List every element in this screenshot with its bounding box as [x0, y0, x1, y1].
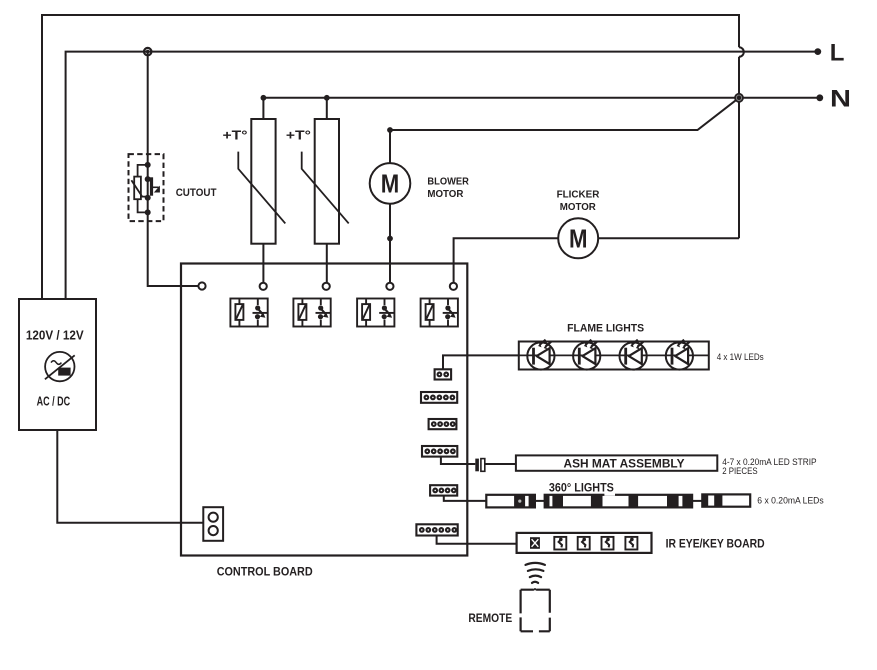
remote signal arc 1	[526, 563, 545, 565]
thermistor +T 1 characteristic slash	[238, 152, 285, 224]
svg-text:ASH MAT ASSEMBLY: ASH MAT ASSEMBLY	[564, 459, 685, 471]
node thermistor1 top	[261, 95, 267, 101]
remote dashed body	[521, 590, 550, 632]
svg-text:+T°: +T°	[286, 129, 311, 143]
wire flame lights from 2-pin connector	[443, 355, 519, 369]
wire IR board from 6-pin connector	[437, 536, 517, 544]
svg-text:M: M	[381, 169, 400, 199]
blower motor M circle	[370, 163, 411, 204]
board terminal circles	[198, 282, 457, 290]
wire N: top loop from AC/DC up, across top, down right side with hop over L wire	[42, 15, 739, 299]
svg-text:L: L	[830, 39, 845, 66]
flame lights chain wire	[519, 354, 709, 356]
wire 360 lights from 4-pin connector	[444, 496, 487, 501]
connector J1 2-pin (flame)	[435, 369, 452, 379]
remote top caret	[533, 589, 536, 591]
wire L: from AC/DC up, across to L terminal	[66, 52, 818, 299]
relay K4	[421, 299, 458, 327]
svg-text:2 PIECES: 2 PIECES	[722, 466, 757, 476]
360 strip segment 2	[545, 493, 692, 507]
IR eye/key board box	[517, 533, 652, 553]
svg-text:6 x 0.20mA LEDs: 6 x 0.20mA LEDs	[757, 496, 824, 506]
ash mat plug bars	[475, 459, 485, 472]
connector J2 5-pin	[421, 392, 457, 403]
key button 1	[554, 537, 566, 550]
wire strip link 2	[692, 500, 702, 502]
svg-text:+T°: +T°	[223, 129, 248, 143]
svg-text:MOTOR: MOTOR	[427, 188, 463, 200]
LED D4 flame	[666, 340, 693, 370]
AC/DC converter 120V/12V box	[19, 299, 96, 430]
relay K3	[357, 299, 394, 327]
LED D1 flame	[527, 340, 554, 370]
AC/DC converter icon	[45, 352, 75, 381]
LED D2 flame	[573, 340, 600, 370]
connector J4 5-pin (ash mat)	[422, 446, 457, 457]
wire thermistor2 bottom to board terminal	[326, 244, 328, 283]
svg-text:120V / 12V: 120V / 12V	[26, 328, 84, 342]
wire N diagonal branch to blower motor line	[390, 98, 739, 163]
connector J6 6-pin (IR board)	[416, 524, 457, 535]
svg-text:MOTOR: MOTOR	[560, 201, 596, 213]
wire ash mat from 5-pin connector	[441, 457, 516, 464]
node thermistor2 top	[324, 95, 330, 101]
wire N branch: junction to thermistor tops	[263, 98, 739, 119]
terminal dot N	[816, 94, 823, 101]
360 strip segment 3	[702, 494, 750, 506]
svg-text:CONTROL BOARD: CONTROL BOARD	[217, 566, 313, 578]
svg-text:IR EYE/KEY BOARD: IR EYE/KEY BOARD	[666, 539, 765, 551]
thermistor +T 2 body	[315, 119, 339, 244]
svg-text:REMOTE: REMOTE	[468, 613, 512, 625]
wire hop: N vertical jumps over L wire	[739, 47, 744, 57]
relay K2	[293, 299, 330, 327]
terminal dot L	[814, 48, 821, 55]
svg-text:4 x 1W LEDs: 4 x 1W LEDs	[717, 352, 764, 363]
cutout CUTOUT dashed box	[129, 154, 164, 221]
IR eye sensor	[530, 537, 540, 549]
node blower bottom	[387, 236, 393, 242]
wire AC/DC output to 12V connector	[57, 430, 203, 523]
svg-text:N: N	[830, 85, 851, 112]
connector J5 4-pin (360 lights)	[430, 485, 457, 495]
svg-text:CUTOUT: CUTOUT	[176, 187, 217, 199]
cutout junction dots	[145, 162, 151, 216]
wire blower motor to board terminal	[389, 204, 391, 283]
junction ring on L wire above cutout	[144, 48, 151, 55]
flame lights box	[519, 342, 709, 370]
wire N to N terminal	[739, 97, 820, 99]
connector J3 4-pin	[429, 419, 457, 429]
key button 3	[602, 537, 614, 550]
360 strip segment 1	[486, 495, 535, 508]
svg-text:BLOWER: BLOWER	[427, 175, 469, 187]
key button 2	[578, 537, 590, 550]
remote signal arc 3	[530, 576, 541, 577]
node blower top	[387, 127, 393, 133]
thermistor +T 1 body	[251, 119, 275, 244]
flicker motor M circle	[558, 218, 598, 258]
cutout parallel resistor branch	[131, 165, 147, 213]
junction N node	[734, 93, 744, 103]
wire strip link 1	[535, 500, 545, 502]
svg-text:FLAME LIGHTS: FLAME LIGHTS	[567, 322, 644, 334]
cutout thermal switch bar and actuator	[152, 177, 160, 195]
wire flicker motor left to board terminal	[454, 238, 559, 282]
remote signal arc 4	[532, 582, 538, 583]
svg-text:M: M	[569, 224, 588, 254]
wire thermistor1 bottom to board terminal	[262, 244, 264, 283]
connector 12V input 2-pin vertical	[203, 507, 223, 541]
ash mat assembly box	[516, 455, 717, 470]
control board outline	[181, 264, 467, 556]
svg-text:AC / DC: AC / DC	[37, 395, 71, 409]
wire flicker motor right to N vertical	[598, 237, 739, 239]
thermistor +T 2 characteristic slash	[302, 152, 349, 224]
key button 4	[625, 537, 637, 550]
relay K1	[230, 299, 267, 327]
LED D3 flame	[620, 340, 647, 370]
svg-text:360° LIGHTS: 360° LIGHTS	[549, 483, 614, 495]
svg-text:FLICKER: FLICKER	[557, 189, 600, 201]
remote signal arc 2	[528, 569, 544, 571]
wire L through cutout down to board terminal	[148, 52, 199, 286]
